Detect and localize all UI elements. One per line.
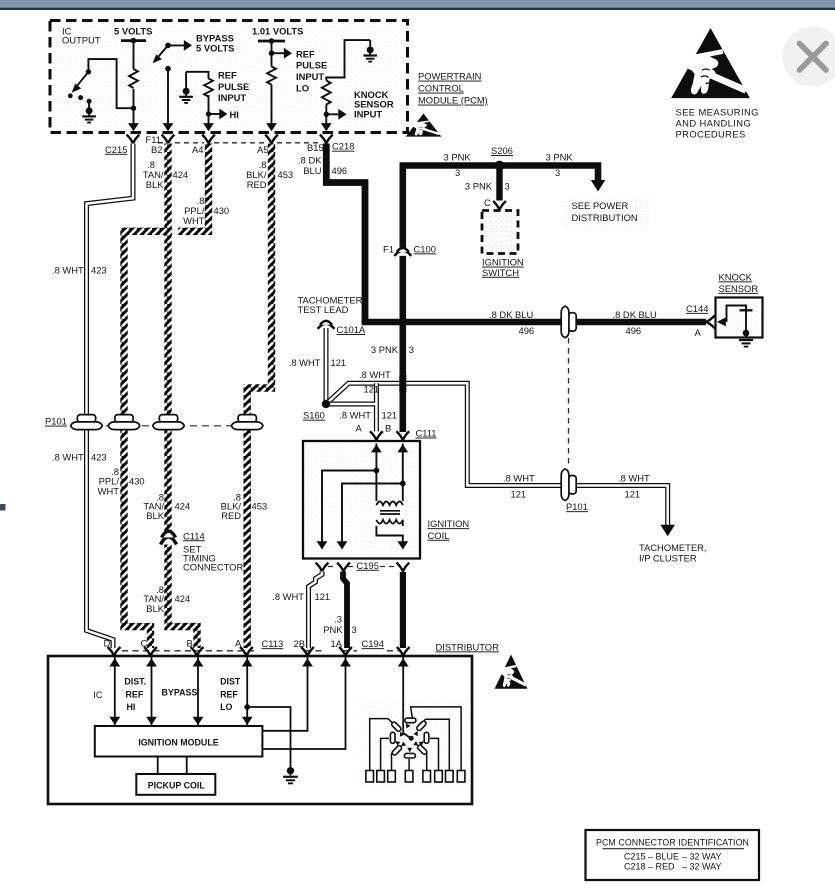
svg-text:B: B — [385, 423, 391, 434]
svg-text:.8 WHT: .8 WHT — [272, 591, 304, 602]
svg-text:PULSE: PULSE — [218, 81, 249, 92]
svg-text:5 VOLTS: 5 VOLTS — [114, 26, 152, 37]
wire .8 BLK/RED 453 (A5 to P101 to distributor A) — [247, 144, 271, 649]
svg-text:DIST: DIST — [220, 677, 241, 687]
arrow to SEE POWER DISTRIBUTION — [591, 180, 606, 192]
svg-text:C194: C194 — [362, 638, 384, 649]
label C144 and pin A — [686, 303, 708, 338]
svg-text:BYPASS: BYPASS — [162, 687, 198, 697]
svg-text:PNK: PNK — [323, 624, 343, 635]
label SEE MEASURING AND HANDLING PROCEDURES — [676, 106, 759, 139]
ignition switch dashed box — [482, 211, 518, 254]
svg-text:3: 3 — [409, 344, 414, 355]
pin socket at ignition switch — [493, 201, 506, 210]
svg-text:C195: C195 — [357, 560, 379, 571]
PCM module dashed box — [50, 21, 408, 133]
svg-text:C114: C114 — [183, 530, 205, 541]
cap tower terminals (8) — [366, 771, 465, 783]
svg-text:B2: B2 — [151, 144, 162, 155]
svg-text:LO: LO — [220, 702, 232, 712]
svg-text:3: 3 — [352, 624, 357, 635]
svg-text:.8 DK: .8 DK — [298, 154, 322, 165]
ignition coil box — [303, 441, 420, 559]
crossover break (430 over 424) — [172, 227, 178, 236]
P101 inline grommet (tach run) — [561, 469, 588, 512]
svg-text:WHT: WHT — [183, 215, 205, 226]
connector C101A (tach test lead) — [318, 321, 366, 335]
ground (IC switch) — [82, 101, 96, 122]
svg-text:IGNITION MODULE: IGNITION MODULE — [138, 738, 218, 748]
junction + arrow to KNOCK SENSOR INPUT — [321, 109, 347, 131]
svg-text:423: 423 — [91, 265, 107, 276]
svg-text:1.01 VOLTS: 1.01 VOLTS — [252, 26, 303, 37]
P101 grommet 1 — [71, 415, 103, 430]
label .8 PPL/WHT 430 (upper) — [183, 195, 229, 226]
speckle behind SEE POWER DISTRIBUTION — [565, 197, 649, 227]
svg-text:3: 3 — [455, 167, 460, 178]
svg-text:I/P CLUSTER: I/P CLUSTER — [639, 553, 697, 564]
svg-text:C218: C218 — [332, 141, 354, 152]
svg-text:DIST.: DIST. — [124, 677, 146, 687]
redraw PNK wire over crossing — [399, 375, 406, 392]
P101 grommet 4 — [231, 415, 263, 430]
svg-text:LO: LO — [296, 82, 309, 93]
svg-text:REF: REF — [126, 689, 144, 699]
wire .8 WHT 121 (C195 to distributor 2B) — [309, 572, 323, 649]
wire .8 WHT 121 (S160 to coil A) — [326, 383, 376, 431]
PCM pin sockets C215/C218 row — [127, 135, 333, 144]
label REF PULSE INPUT LO — [296, 48, 327, 93]
svg-text:IC: IC — [93, 690, 102, 700]
svg-text:HI: HI — [127, 702, 136, 712]
svg-text:121: 121 — [364, 384, 380, 395]
svg-text:KNOCK: KNOCK — [719, 271, 753, 282]
svg-text:.8 WHT: .8 WHT — [359, 369, 391, 380]
label .8 BLK/RED 453 (upper) — [246, 159, 293, 190]
svg-text:PCM CONNECTOR IDENTIFICATION: PCM CONNECTOR IDENTIFICATION — [596, 838, 749, 848]
browser top bar — [0, 0, 835, 10]
knock sensor element — [727, 306, 753, 332]
label .8 BLK/RED 453 (lower) — [221, 491, 267, 521]
label BYPASS 5 VOLTS — [196, 32, 234, 53]
ground (knock sensor input) — [363, 40, 377, 62]
svg-text:INPUT: INPUT — [296, 71, 324, 82]
inline grommet connector on DK BLU wire — [561, 306, 576, 338]
svg-text:C: C — [484, 197, 491, 208]
label .8 PPL/WHT 430 (lower) — [98, 466, 145, 497]
label KNOCK SENSOR — [719, 271, 759, 294]
knock sensor box — [716, 298, 763, 338]
svg-text:3 PNK: 3 PNK — [546, 151, 574, 162]
wire .8 DK BLU 496 (run to knock sensor) — [362, 319, 706, 325]
svg-text:P101: P101 — [45, 416, 67, 427]
svg-text:121: 121 — [625, 488, 641, 499]
svg-text:3 PNK: 3 PNK — [444, 151, 472, 162]
svg-text:SWITCH: SWITCH — [482, 267, 519, 278]
svg-text:453: 453 — [278, 169, 294, 180]
arrow to tachometer/IP cluster — [660, 525, 675, 537]
svg-text:C113: C113 — [262, 638, 284, 649]
module to pickup coil leads — [158, 757, 187, 775]
dashed leader from grommet to P101 — [568, 338, 570, 468]
wire .8 DK BLU 496 (B15 branch down) — [326, 144, 365, 323]
labels D C B A C113 2B 1A C194 — [104, 638, 384, 650]
svg-text:– 32 WAY: – 32 WAY — [682, 851, 722, 861]
svg-text:S160: S160 — [303, 410, 325, 421]
cap contacts (8 pills) — [390, 718, 428, 758]
1.01V rail bar — [258, 38, 285, 44]
distributor cap speckle — [357, 697, 469, 789]
label .8 DK BLU 496 (at B15) — [298, 154, 347, 176]
svg-text:REF: REF — [220, 689, 238, 699]
svg-text:C215: C215 — [105, 144, 127, 155]
resistor (ref pulse lo) — [267, 67, 276, 124]
connector C100 on PNK wire — [383, 243, 436, 256]
svg-text:424: 424 — [175, 501, 191, 512]
wire .8 TAN/BLK 424 (B2 to P101 to distributor B) — [168, 144, 197, 649]
svg-text:CONNECTOR: CONNECTOR — [183, 562, 243, 573]
resistor (ref pulse input hi) — [186, 72, 213, 123]
svg-text:424: 424 — [173, 169, 189, 180]
svg-text:430: 430 — [214, 205, 230, 216]
svg-text:C111: C111 — [416, 428, 437, 439]
svg-text:121: 121 — [382, 410, 398, 421]
svg-text:SEE POWER: SEE POWER — [572, 200, 629, 211]
pin socket C144 at knock sensor — [706, 316, 715, 329]
ESD warning triangle (at distributor) — [495, 655, 528, 689]
svg-text:3 PNK: 3 PNK — [465, 181, 493, 192]
svg-text:121: 121 — [511, 488, 527, 499]
svg-text:453: 453 — [252, 501, 268, 512]
label .8 DK BLU 496 (left segment) — [489, 309, 534, 336]
node A / ground branch — [244, 704, 290, 767]
C113/C194 connector row dashed line — [122, 650, 399, 652]
svg-text:– 32 WAY: – 32 WAY — [682, 861, 722, 871]
ignition module box — [95, 726, 263, 757]
junction dots in coil — [374, 468, 406, 487]
label C114 SET TIMING CONNECTOR — [183, 530, 243, 572]
distributor pin leads with arrows — [115, 657, 411, 749]
rotor center contact — [409, 736, 414, 741]
C195 pin sockets — [316, 560, 410, 572]
wire .8 WHT 121 (test lead down to S160) — [324, 328, 329, 402]
svg-text:A5: A5 — [257, 144, 268, 155]
svg-text:D: D — [104, 638, 111, 649]
label REF PULSE INPUT HI — [218, 70, 249, 120]
PCM connector row dashed line — [158, 142, 321, 144]
svg-text:A: A — [235, 638, 242, 649]
distributor pin sockets row — [108, 647, 410, 656]
svg-text:REF: REF — [218, 70, 237, 81]
connector labels row — [105, 134, 354, 155]
bypass output wire to pin B2 — [163, 66, 174, 131]
svg-text:RED: RED — [221, 510, 241, 521]
svg-text:TEST LEAD: TEST LEAD — [298, 304, 349, 315]
knock sensor input network — [322, 40, 370, 123]
svg-text:121: 121 — [331, 357, 347, 368]
label 3 PNK 3 (left of S206) — [444, 151, 472, 178]
svg-text:.8 WHT: .8 WHT — [503, 472, 535, 483]
node with arrow to REF PULSE INPUT LO — [269, 41, 292, 67]
label SEE POWER DISTRIBUTION — [572, 200, 638, 223]
svg-text:PICKUP COIL: PICKUP COIL — [148, 781, 206, 791]
svg-text:.8 WHT: .8 WHT — [52, 451, 84, 462]
coil primary winding — [376, 501, 402, 505]
splice S160 — [303, 400, 330, 421]
svg-text:423: 423 — [91, 451, 107, 462]
label .8 WHT 121 (C195-2B) — [272, 591, 330, 602]
wire 3 PNK (S206 to ignition switch) — [496, 166, 502, 201]
label .8 TAN/BLK 424 (mid) — [143, 491, 190, 521]
svg-text:RED: RED — [247, 179, 267, 190]
svg-text:CONTROL: CONTROL — [418, 83, 464, 94]
arrows at coil pins — [317, 444, 409, 549]
svg-text:496: 496 — [519, 325, 535, 336]
wire .8 WHT 423 (C215-F11 to P101 to distributor D) — [87, 144, 134, 649]
svg-text:C218 – RED: C218 – RED — [624, 861, 675, 871]
label .8 WHT 423 (upper) — [52, 265, 107, 276]
svg-text:A: A — [695, 327, 702, 338]
close button (X) — [783, 27, 835, 87]
label POWERTRAIN CONTROL MODULE (PCM) — [418, 71, 488, 106]
label 3 PNK 3 (above coil) — [371, 344, 414, 355]
svg-text:COIL: COIL — [428, 530, 450, 541]
left margin tick — [0, 504, 6, 511]
connector C114 set timing (on 424 wire) — [161, 531, 177, 545]
label KNOCK SENSOR INPUT — [354, 89, 394, 120]
PCM connector identification box — [586, 830, 760, 880]
ground (ref pulse input) — [179, 72, 193, 103]
label 3 PNK 3 (right of S206) — [546, 151, 574, 178]
bypass driver node with arrows — [159, 45, 187, 56]
svg-text:C144: C144 — [686, 303, 708, 314]
svg-text:P101: P101 — [566, 501, 588, 512]
C111 pin sockets and labels — [356, 423, 437, 441]
label TACHOMETER, I/P CLUSTER — [639, 542, 707, 563]
coil core — [380, 511, 400, 514]
label 1.01 VOLTS — [252, 26, 303, 37]
5V supply rail bar — [121, 38, 146, 44]
svg-text:3: 3 — [555, 167, 560, 178]
ground (ignition module) — [283, 767, 298, 783]
svg-text:B15: B15 — [307, 142, 324, 153]
svg-text:C215 – BLUE: C215 – BLUE — [624, 851, 679, 861]
P101 bulkhead connector row dashed line — [70, 425, 262, 427]
svg-text:.8 WHT: .8 WHT — [339, 410, 371, 421]
svg-text:SEE MEASURING: SEE MEASURING — [676, 106, 759, 117]
switch S (IC driver) blade and contacts — [78, 59, 134, 108]
cap contact tips — [394, 722, 425, 752]
svg-text:MODULE (PCM): MODULE (PCM) — [418, 95, 488, 106]
coil secondary winding — [376, 520, 402, 526]
coil secondary wire (C195 to distributor cap) — [400, 572, 406, 648]
label .8 WHT 423 (lower) — [52, 451, 107, 462]
svg-text:REF: REF — [296, 48, 315, 59]
svg-text:BLK: BLK — [146, 510, 164, 521]
svg-text:WHT: WHT — [98, 485, 120, 496]
P101 grommet 2 — [108, 415, 140, 430]
svg-text:AND HANDLING: AND HANDLING — [676, 118, 752, 129]
svg-text:S206: S206 — [491, 145, 513, 156]
cap contact wires — [370, 707, 461, 771]
svg-text:430: 430 — [129, 476, 145, 487]
svg-text:BLK: BLK — [146, 603, 164, 614]
svg-text:496: 496 — [626, 325, 642, 336]
wire .8 WHT 121 (S160 to tachometer/IP cluster run) — [326, 383, 668, 525]
resistor (5V pull-up, IC output) — [129, 41, 138, 124]
label .8 WHT 121 (right of P101) — [618, 472, 650, 499]
label TACHOMETER TEST LEAD — [298, 295, 363, 315]
svg-text:121: 121 — [315, 591, 331, 602]
label 3 PNK 3 (drop) + pin C — [465, 181, 510, 209]
wire .3 PNK 3 (C195 to distributor 1A) — [343, 572, 347, 649]
label .8 TAN/BLK 424 (upper) — [143, 159, 188, 190]
label IGNITION SWITCH — [482, 257, 524, 278]
svg-text:SENSOR: SENSOR — [719, 283, 759, 294]
label IC OUTPUT — [62, 26, 101, 46]
svg-text:1A: 1A — [331, 638, 343, 649]
svg-text:2B: 2B — [294, 638, 305, 649]
label .8 WHT 121 (test lead) — [289, 357, 346, 368]
svg-text:INPUT: INPUT — [354, 109, 382, 120]
wire 3 PNK (S206 rail and drop to C100/coil) — [403, 166, 598, 433]
svg-text:OUTPUT: OUTPUT — [62, 34, 101, 45]
label .8 WHT 121 (S160 branch) — [339, 410, 397, 421]
ground (knock sensor) — [739, 333, 753, 347]
svg-text:A: A — [356, 423, 363, 434]
svg-text:INPUT: INPUT — [218, 92, 246, 103]
svg-text:BLU: BLU — [303, 165, 321, 176]
coil internal wiring — [322, 444, 403, 547]
svg-text:C100: C100 — [414, 243, 436, 254]
svg-text:3 PNK: 3 PNK — [371, 344, 399, 355]
svg-text:C101A: C101A — [337, 324, 366, 335]
P101 grommet 3 — [153, 415, 185, 430]
label .3 PNK 3 — [323, 614, 357, 635]
svg-text:A4: A4 — [192, 144, 203, 155]
pickup coil box — [136, 774, 215, 795]
svg-text:HI: HI — [230, 109, 239, 120]
labels IC / DIST. REF HI / BYPASS / DIST REF LO — [93, 677, 240, 712]
junction node (IC output pin F11 col) — [128, 106, 139, 132]
label .8 WHT 121 (left of P101) — [503, 472, 535, 499]
svg-text:DISTRIBUTOR: DISTRIBUTOR — [436, 641, 500, 652]
svg-text:.8 DK BLU: .8 DK BLU — [489, 309, 534, 320]
svg-text:PULSE: PULSE — [296, 60, 327, 71]
label 5 VOLTS — [114, 26, 152, 37]
svg-text:F1: F1 — [383, 243, 394, 254]
svg-text:TACHOMETER,: TACHOMETER, — [639, 542, 707, 553]
svg-text:IGNITION: IGNITION — [428, 518, 470, 529]
svg-text:496: 496 — [332, 165, 348, 176]
label .8 TAN/BLK 424 (lower) — [143, 584, 190, 614]
svg-text:.3: .3 — [334, 614, 342, 625]
junction + arrow to HI — [203, 109, 227, 132]
white break for WHT over PNK crossing — [397, 378, 409, 388]
svg-text:POWERTRAIN: POWERTRAIN — [418, 71, 481, 82]
ESD warning triangle (large, top right) — [671, 28, 750, 98]
label .8 WHT 121 (upper run) — [359, 369, 391, 394]
label .8 DK BLU 496 (right segment) — [613, 309, 658, 336]
svg-text:PROCEDURES: PROCEDURES — [676, 128, 746, 139]
label IGNITION COIL — [428, 518, 470, 541]
svg-text:.8 WHT: .8 WHT — [289, 357, 321, 368]
wire .8 PPL/WHT 430 (A4 to P101 to distributor C) — [124, 144, 209, 649]
svg-text:.8 DK BLU: .8 DK BLU — [613, 309, 658, 320]
svg-text:.8 WHT: .8 WHT — [52, 265, 84, 276]
svg-text:5 VOLTS: 5 VOLTS — [196, 42, 234, 53]
svg-text:3: 3 — [505, 181, 510, 192]
ESD warning triangle (at PCM) — [406, 114, 442, 137]
svg-text:.8 WHT: .8 WHT — [618, 472, 650, 483]
svg-text:DISTRIBUTION: DISTRIBUTION — [572, 212, 638, 223]
distributor box — [48, 656, 472, 804]
svg-text:BLK: BLK — [146, 179, 164, 190]
svg-text:424: 424 — [175, 593, 191, 604]
splice S206 — [491, 145, 513, 170]
svg-text:B: B — [187, 638, 193, 649]
svg-text:C: C — [141, 638, 148, 649]
